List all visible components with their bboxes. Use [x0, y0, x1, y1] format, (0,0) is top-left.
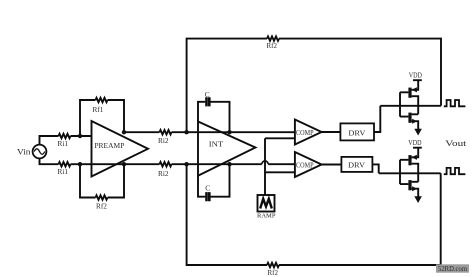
node preamp top output: [122, 130, 126, 134]
svg-text:Vout: Vout: [445, 138, 467, 148]
transistor Q1 PMOS gate bar: [408, 88, 411, 98]
wire top chain Ri2 to COMP1: [172, 131, 295, 133]
watermark 52RD.com: [436, 264, 469, 272]
transistor Q4 NMOS gate bar: [408, 180, 411, 190]
resistor Ri2 (bottom): [160, 162, 172, 166]
transistor Q2 drain lead: [412, 113, 419, 115]
svg-text:Ri1: Ri1: [58, 167, 69, 176]
svg-text:C: C: [205, 90, 210, 99]
resistor Rf2 (bottom global): [267, 263, 279, 267]
wire top C feedback loop: [198, 102, 230, 132]
square wave glyph (bottom output): [444, 168, 466, 174]
driver DRV2 box: [341, 157, 372, 172]
op-amp PREAMP: [92, 121, 149, 177]
voltage source Vin (AC source circle): [33, 145, 47, 159]
node on top input (Rf1 tap): [78, 134, 82, 138]
wire top stage output line: [380, 105, 441, 107]
svg-text:Rf2: Rf2: [96, 202, 107, 211]
sine wave inside source: [34, 149, 45, 154]
wire source bottom lead: [40, 158, 59, 164]
svg-text:Ri2: Ri2: [158, 136, 169, 145]
ground arrow (bottom stage VSS): [414, 196, 422, 203]
node INT bottom output / C tap: [227, 162, 231, 166]
resistor Ri1 (bottom input): [59, 162, 71, 166]
transistor Q1 source lead to VDD: [412, 80, 422, 90]
op-amp INT: [198, 122, 256, 176]
bottom output stage: gate bus: [400, 160, 408, 184]
wire DRV1 output to top stage gate: [374, 106, 380, 132]
transistor Q4 source lead: [412, 189, 419, 197]
resistor Ri1 (top input): [59, 134, 71, 138]
top output stage: gate bus: [400, 92, 408, 116]
wire Rf2 preamp feedback loop: [80, 164, 124, 197]
wire source top lead: [40, 136, 59, 145]
svg-text:RAMP: RAMP: [257, 212, 276, 219]
transistor Q4 drain lead: [412, 181, 419, 183]
node INT top output / C tap: [227, 130, 231, 134]
svg-text:C: C: [205, 184, 210, 193]
wire global top feedback loop: [187, 39, 441, 133]
wire bottom chain hop to COMP2: [268, 163, 295, 165]
transistor Q3 drain lead: [412, 164, 419, 182]
svg-text:Rf2: Rf2: [268, 269, 279, 277]
svg-text:Rf2: Rf2: [267, 42, 278, 50]
transistor Q4 NMOS arrow: [412, 186, 417, 191]
wire bottom chain through preamp: [71, 163, 160, 165]
svg-text:COMP: COMP: [296, 129, 314, 137]
wire ramp to COMP1 lower input: [265, 137, 295, 139]
svg-text:VDD: VDD: [408, 138, 422, 147]
comparator COMP2: [295, 152, 322, 177]
svg-text:COMP: COMP: [296, 161, 314, 169]
wire Rf1 feedback loop: [80, 100, 124, 136]
transistor Q2 source lead: [412, 121, 419, 129]
svg-text:VDD: VDD: [409, 71, 423, 80]
transistor Q2 NMOS gate bar: [408, 113, 411, 123]
svg-text:Ri2: Ri2: [158, 169, 169, 178]
wire ramp to COMP2 lower input: [265, 171, 295, 173]
wire ramp vertical line: [264, 138, 266, 195]
transistor Q1 drain lead: [412, 96, 419, 114]
wire global bottom feedback loop: [187, 164, 441, 265]
wire COMP1 output to DRV1: [322, 131, 341, 133]
resistor Ri2 (top): [160, 130, 172, 134]
comparator COMP1: [295, 120, 322, 145]
square wave glyph (top output): [444, 100, 466, 106]
wire top chain preamp output to Ri2: [123, 131, 160, 133]
capacitor C (bottom): [207, 192, 210, 201]
wire top input to preamp: [71, 135, 92, 137]
transistor Q3 PMOS gate bar: [408, 155, 411, 165]
svg-text:Ri1: Ri1: [58, 139, 69, 148]
driver DRV1 box: [340, 123, 374, 140]
wire bottom stage output line: [379, 172, 441, 174]
resistor Rf2 (top global): [267, 36, 279, 40]
transistor Q3 PMOS arrow: [412, 155, 417, 160]
node on bottom chain (Rf2 preamp tap): [78, 162, 82, 166]
wire bottom chain Ri2 to hop: [172, 163, 262, 165]
ramp generator M waveform glyph: [260, 199, 272, 209]
node top global feedback tap: [184, 130, 188, 134]
svg-text:DRV: DRV: [348, 160, 366, 169]
svg-text:INT: INT: [209, 139, 224, 148]
svg-text:Vin: Vin: [17, 147, 31, 157]
svg-text:Rf1: Rf1: [93, 105, 104, 114]
svg-text:52RD.com: 52RD.com: [438, 266, 468, 273]
resistor Rf2 (preamp loop): [96, 195, 108, 199]
ramp generator box: [258, 195, 275, 212]
transistor Q3 source lead to VDD: [412, 148, 422, 158]
wire bottom C feedback loop: [198, 164, 230, 197]
ground arrow (top stage VSS): [414, 129, 422, 136]
svg-text:DRV: DRV: [348, 128, 366, 137]
transistor Q1 PMOS arrow: [412, 87, 417, 92]
wire COMP2 output to DRV2: [322, 164, 342, 166]
node bottom global feedback tap: [184, 162, 188, 166]
svg-text:PREAMP: PREAMP: [94, 141, 124, 150]
transistor Q2 NMOS arrow: [412, 119, 417, 124]
capacitor C (top): [207, 97, 210, 106]
wire DRV2 output to bottom stage gate: [372, 164, 378, 173]
resistor Rf1: [96, 98, 108, 102]
wire hop over ramp line: [262, 161, 268, 164]
node preamp bottom output: [122, 162, 126, 166]
